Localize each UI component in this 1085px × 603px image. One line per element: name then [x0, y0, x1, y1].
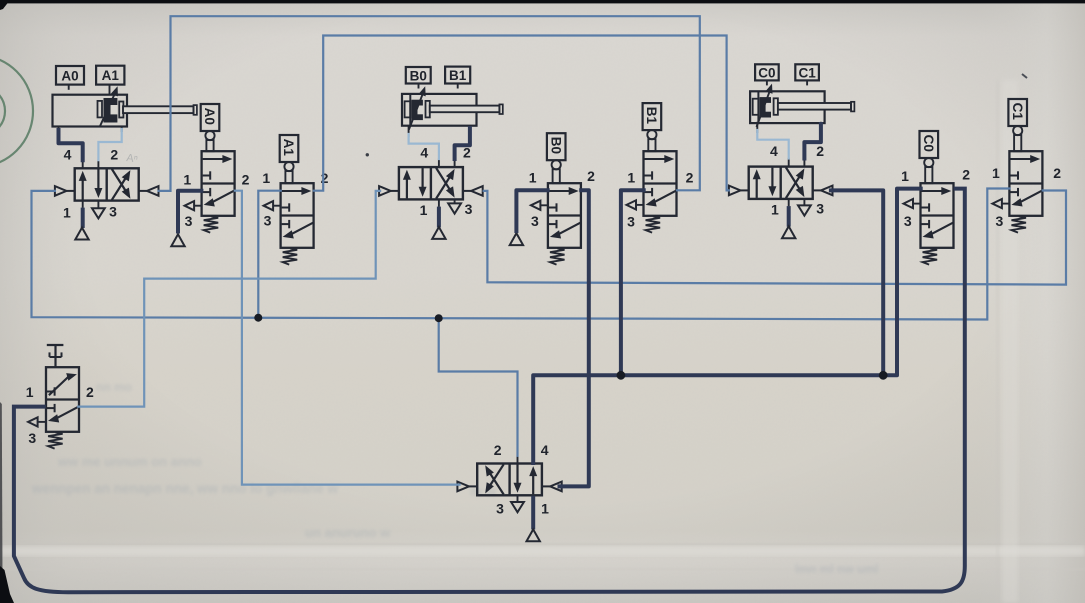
valve VA label 4: [64, 146, 72, 162]
junction node (A1 port 1 / bus Y3): [254, 314, 262, 322]
valve VA 5/2 double-pilot body: [75, 168, 139, 200]
svg-text:4: 4: [420, 145, 428, 161]
limit valve B1 labels: [627, 169, 694, 229]
svg-text:1: 1: [992, 165, 1000, 181]
svg-text:1: 1: [771, 201, 779, 217]
svg-text:1: 1: [529, 169, 537, 185]
wire cylinder C port to VC port 4: [757, 130, 788, 159]
valve VC labels: [770, 143, 824, 217]
svg-text:C1: C1: [1010, 103, 1025, 121]
valve VB 5/2 double-pilot body: [399, 167, 463, 199]
valve VB top port stubs: [439, 158, 455, 167]
junction node (B1 port 1 / bus Y5): [617, 371, 626, 380]
cylinder A label box A1: [96, 66, 124, 95]
limit valve C0 (3/2 roller, pressed): [920, 131, 954, 265]
svg-text:A1: A1: [281, 139, 296, 157]
paper speck 2: [1022, 74, 1027, 78]
wire A1 port 1 drop to bus Y3: [258, 191, 281, 318]
valve VA label 1: [63, 204, 71, 220]
valve VB port 1 source: [432, 199, 445, 239]
limit valve B1 exhaust: [627, 200, 644, 209]
valve VB pilots: [379, 186, 483, 196]
svg-text:C1: C1: [798, 65, 816, 80]
svg-text:2: 2: [242, 171, 250, 187]
svg-text:wennpen an nenapn nne, ww: wennpen an nenapn nne, ww nno lo gnwllan…: [31, 481, 339, 496]
limit valve B1 (3/2 roller, released): [643, 103, 677, 233]
limit valve C0 labels: [901, 167, 970, 230]
limit valve A1 (3/2 roller, pressed): [280, 135, 314, 265]
wire bus Y2 (A1 port 2 to VC left pilot): [314, 36, 729, 191]
svg-text:2: 2: [494, 442, 502, 458]
valve V0 4/2 double-pilot body: [477, 464, 542, 496]
svg-text:2: 2: [962, 167, 970, 183]
pencil note: [126, 152, 139, 165]
cylinder A port stubs: [59, 127, 122, 134]
svg-text:3: 3: [816, 200, 824, 216]
valve VC pilots: [729, 186, 833, 196]
junction node (V0 port 2 / bus Y3): [435, 314, 443, 322]
svg-text:4: 4: [541, 442, 549, 458]
svg-text:Aⁿ: Aⁿ: [126, 152, 139, 165]
start valve S exhaust: [28, 417, 45, 426]
limit valve B0 (3/2 roller, pressed): [547, 133, 581, 264]
wire bus Y5 (V0 port 4 / B1 port 1 / VC right pilot / C0 port 1): [533, 189, 921, 463]
svg-text:2: 2: [686, 169, 694, 185]
valve VC port 3 exhaust: [798, 199, 811, 216]
wire bus Y1 (VA right pilot to B1 port 2): [159, 16, 700, 191]
svg-text:4: 4: [770, 143, 778, 159]
wire B0 port 2 to V0 right pilot: [560, 190, 589, 486]
cylinder B label box B1: [445, 67, 470, 89]
limit valve A0 source: [171, 234, 184, 246]
svg-text:ww me unnum on anno: ww me unnum on anno: [57, 454, 202, 469]
valve VA port 3 exhaust: [92, 200, 105, 218]
cylinder B port stubs: [409, 125, 470, 137]
wire VC right pilot drop to bus Y5: [831, 190, 883, 375]
svg-text:3: 3: [109, 204, 117, 220]
limit valve C1 (3/2 roller, released): [1008, 99, 1042, 233]
svg-text:1: 1: [627, 169, 635, 185]
svg-text:A1: A1: [102, 68, 120, 83]
svg-text:B0: B0: [410, 68, 427, 83]
wire cylinder B rod-side port to VB port 2 (pressurised): [455, 128, 470, 159]
wire A0 port 2 to V0 left pilot: [235, 191, 460, 485]
limit valve A0 exhaust: [185, 201, 202, 210]
svg-text:B1: B1: [449, 68, 467, 83]
wire cylinder C rod-side port to VC port 2 (pressurised): [804, 124, 821, 159]
wire cylinder A port to VA port 4 (pressurised): [59, 130, 83, 160]
wire start valve port 2 to VB left pilot: [78, 191, 380, 407]
svg-text:1: 1: [262, 170, 270, 186]
svg-text:1: 1: [420, 202, 428, 218]
cylinder B position marker arrow: [409, 86, 426, 129]
binder hole ring: [0, 55, 33, 167]
svg-text:3: 3: [531, 213, 539, 229]
svg-text:2: 2: [110, 146, 118, 162]
cylinder A (double-acting, extended): [53, 95, 197, 127]
svg-text:1: 1: [541, 500, 549, 516]
paper speck: [366, 153, 369, 156]
wire bus Y3 to V0 port 2: [439, 318, 518, 456]
svg-text:4: 4: [64, 146, 72, 162]
valve VA top port stubs: [83, 160, 99, 169]
valve V0 port 1 source: [527, 496, 540, 542]
cylinder B label box B0: [406, 67, 431, 89]
svg-text:3: 3: [465, 201, 473, 217]
limit valve C1 labels: [992, 165, 1061, 229]
svg-text:3: 3: [496, 500, 504, 516]
svg-text:2: 2: [587, 168, 595, 184]
valve VC port 1 source: [782, 199, 795, 238]
limit valve C0 exhaust: [904, 199, 921, 208]
start valve S labels: [26, 384, 94, 446]
svg-text:1: 1: [183, 171, 191, 187]
limit valve B0 labels: [529, 168, 595, 229]
wire cylinder B port to VB port 4: [409, 134, 439, 159]
svg-text:A0: A0: [61, 68, 78, 83]
wire VB right pilot to C1 port 2: [484, 191, 1066, 285]
valve VA pilots: [55, 186, 159, 196]
svg-text:un anuruno w: un anuruno w: [305, 525, 391, 540]
cylinder C position marker arrow: [757, 84, 773, 127]
valve VC top port stubs: [789, 158, 805, 167]
wire B0 port 1 to source: [516, 190, 547, 231]
svg-text:3: 3: [264, 213, 272, 229]
cylinder C label box C0: [755, 64, 779, 85]
svg-text:2: 2: [86, 384, 94, 400]
valve VA label 3: [109, 204, 117, 220]
svg-text:A0: A0: [202, 108, 217, 125]
limit valve A0 (3/2 roller, released): [201, 104, 235, 233]
svg-text:1: 1: [63, 204, 71, 220]
svg-text:lmn ml nw uml: lmn ml nw uml: [795, 562, 878, 576]
start valve S (3/2 push-button): [46, 345, 79, 449]
limit valve A1 exhaust: [264, 201, 281, 210]
limit valve A1 labels: [262, 170, 328, 229]
svg-text:3: 3: [28, 430, 36, 446]
valve VB port 3 exhaust: [448, 200, 461, 214]
valve V0 pilots: [457, 482, 561, 492]
svg-text:C0: C0: [758, 65, 775, 80]
svg-text:B0: B0: [548, 137, 563, 154]
junction node (VC pilot / bus Y5): [879, 371, 888, 380]
svg-text:C0: C0: [921, 135, 936, 152]
wire B1 port 1 drop to bus Y5: [621, 190, 644, 375]
svg-text:B1: B1: [644, 107, 659, 125]
cylinder B (double-acting, retracted): [402, 94, 503, 126]
valve VA label 2: [110, 146, 118, 162]
cylinder A label box A0: [56, 66, 84, 90]
wire C0 port 2 round outside to start valve port 1: [14, 189, 965, 593]
svg-text:3: 3: [996, 213, 1004, 229]
svg-text:2: 2: [1053, 165, 1061, 181]
limit valve B0 exhaust: [531, 201, 548, 210]
wire A0 port 1 to source: [178, 191, 201, 232]
valve V0 labels: [494, 442, 549, 517]
svg-text:2: 2: [321, 170, 329, 186]
cylinder C label box C1: [795, 64, 819, 85]
svg-text:3: 3: [185, 213, 193, 229]
limit valve B0 source: [510, 233, 523, 245]
valve V0 port 3 exhaust: [511, 496, 524, 513]
valve VA port 1 source: [75, 200, 88, 239]
cylinder C (double-acting, retracted): [750, 91, 854, 123]
svg-text:1: 1: [26, 384, 34, 400]
svg-text:2: 2: [816, 143, 824, 159]
svg-text:1: 1: [901, 168, 909, 184]
svg-text:nn mo: nn mo: [96, 380, 132, 394]
limit valve A0 labels: [183, 171, 249, 229]
svg-text:3: 3: [904, 213, 912, 229]
valve VC 5/2 double-pilot body: [749, 167, 813, 199]
valve V0 port 2 stub: [517, 455, 519, 464]
svg-text:3: 3: [627, 214, 635, 230]
cylinder C port stubs: [757, 122, 821, 133]
wire cylinder A rod-side port to VA port 2: [98, 129, 121, 160]
valve VB labels: [420, 145, 473, 218]
limit valve C1 exhaust: [992, 199, 1009, 208]
cylinder A position marker arrow: [100, 86, 118, 126]
wire bus Y3 (VA left pilot / A1 port 1 / V0 port 2 / C1 port 1): [32, 189, 1010, 320]
